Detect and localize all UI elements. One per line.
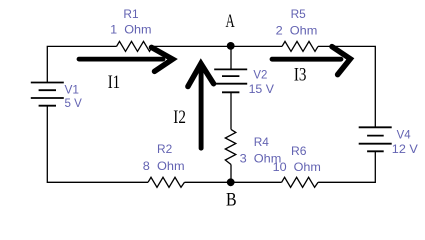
label V4 <box>392 128 418 157</box>
resistor R2 <box>148 177 185 187</box>
label R6 <box>273 144 321 174</box>
svg-text:V2: V2 <box>253 68 267 82</box>
svg-text:V1: V1 <box>65 83 80 97</box>
resistor R1 <box>117 41 153 51</box>
label V1 <box>65 83 82 110</box>
svg-text:10 Ohm: 10 Ohm <box>273 160 321 174</box>
current arrow I2 <box>188 64 214 149</box>
wire R5 to top-right corner (V4) <box>318 46 375 127</box>
svg-text:2 Ohm: 2 Ohm <box>276 23 318 37</box>
wire R1 to node A <box>153 45 283 47</box>
svg-text:V4: V4 <box>397 128 411 142</box>
battery V2 <box>214 69 247 92</box>
svg-text:12 V: 12 V <box>392 142 418 156</box>
resistor R5 <box>282 41 318 51</box>
svg-text:1 Ohm: 1 Ohm <box>110 23 151 37</box>
node B junction dot <box>227 178 235 186</box>
svg-text:I3: I3 <box>294 64 307 85</box>
svg-text:R5: R5 <box>291 7 307 21</box>
resistor R4 <box>225 129 236 164</box>
svg-text:15 V: 15 V <box>249 82 274 96</box>
wire R4 to node B <box>230 165 232 183</box>
current arrow I1 <box>79 47 173 71</box>
svg-text:R4: R4 <box>254 135 270 149</box>
battery V1 <box>31 83 64 106</box>
wire V1 to bottom-left corner to R2 <box>47 106 148 183</box>
svg-text:R1: R1 <box>123 7 139 21</box>
svg-text:I1: I1 <box>108 72 120 93</box>
svg-text:A: A <box>226 11 235 32</box>
current arrow I3 <box>272 47 350 75</box>
resistor R6 <box>282 177 319 187</box>
label R1 <box>110 7 151 37</box>
svg-text:B: B <box>226 190 237 211</box>
wire top-left (V1 to R1) <box>47 46 116 82</box>
svg-text:R6: R6 <box>291 144 307 158</box>
node A junction dot <box>227 42 235 50</box>
svg-text:R2: R2 <box>157 142 173 156</box>
label V2 <box>249 68 274 96</box>
wire V2 to R4 <box>230 92 232 129</box>
wire R6 to bottom-right corner (V4) <box>318 151 375 182</box>
wire R2 to node B <box>185 181 282 183</box>
label R4 <box>240 135 282 165</box>
wire node A to V2 <box>230 46 232 69</box>
label R5 <box>276 7 318 37</box>
svg-text:5 V: 5 V <box>65 96 82 110</box>
label R2 <box>143 142 185 173</box>
svg-text:I2: I2 <box>173 107 186 128</box>
battery V4 <box>359 127 392 151</box>
svg-text:8 Ohm: 8 Ohm <box>143 159 185 173</box>
